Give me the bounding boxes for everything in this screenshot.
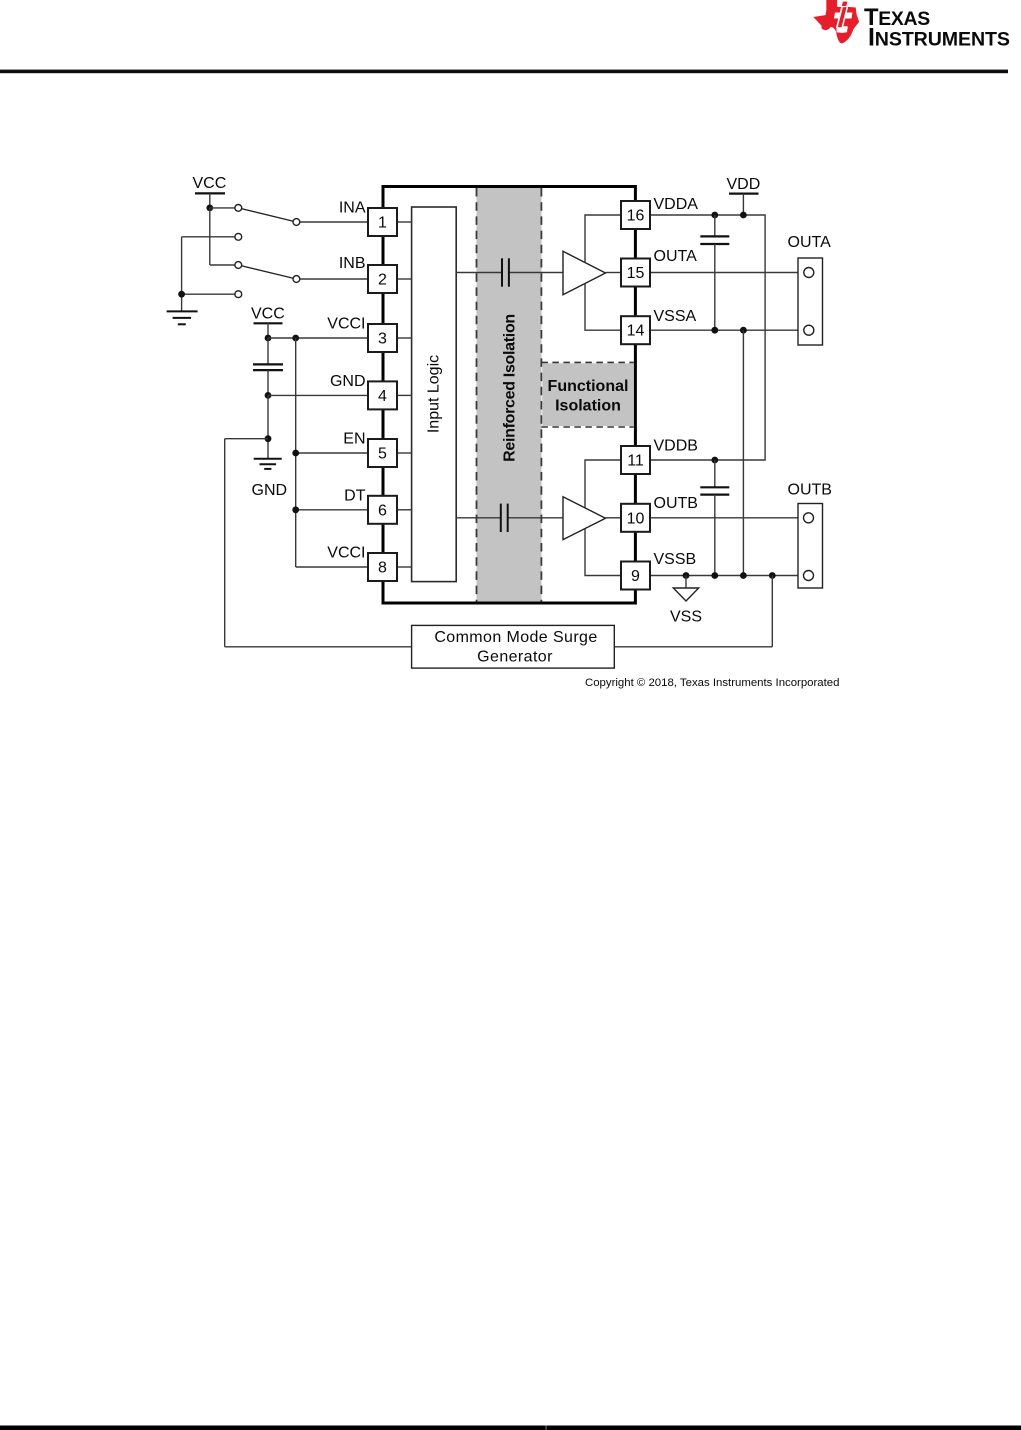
node VDD supply [727,176,761,215]
svg-text:10: 10 [627,510,645,527]
svg-text:INA: INA [339,200,366,217]
switch S1 (INA select) [210,205,368,226]
wire driver B supply rail [585,460,621,576]
wire to surge generator (left) [225,439,412,647]
svg-text:VDDB: VDDB [654,437,698,454]
svg-text:VCCI: VCCI [327,316,365,333]
svg-text:VCC: VCC [251,305,285,322]
capacitor C2 (isolation channel A) [501,258,509,286]
connector J1 OUTA [788,234,832,345]
wire isolation channel B [456,517,563,519]
wire VSSA to VSSB [742,330,744,575]
svg-text:VSS: VSS [670,609,702,626]
connector J2 OUTB [788,481,832,588]
pin 14 (VSSA) [621,308,697,344]
wire OUTB [650,517,809,519]
svg-text:8: 8 [378,560,387,577]
svg-text:DT: DT [344,487,366,504]
pin 16 (VDDA) [621,196,698,229]
wire surge generator return [614,576,772,647]
node VCC (VCCI supply) [251,305,285,341]
pin 11 (VDDB) [621,437,698,474]
svg-text:5: 5 [378,446,387,463]
wire pins to input logic [397,222,411,567]
svg-text:16: 16 [627,208,645,225]
ground VSS [670,576,702,626]
capacitor C4 (VDDA decoupling) [700,215,729,330]
svg-text:Reinforced Isolation: Reinforced Isolation [501,314,518,462]
capacitor C1 (VCCI decoupling) [253,338,283,399]
wire driver A supply rail [585,215,621,330]
svg-text:EN: EN [343,431,365,448]
svg-text:GND: GND [252,482,288,499]
pin 3 (VCCI) [327,316,397,353]
svg-text:OUTA: OUTA [788,234,832,251]
IC U1 body [383,187,635,604]
pin 8 (VCCI) [327,545,397,582]
capacitor C5 (VDDB decoupling) [700,460,729,576]
svg-text:3: 3 [378,331,387,348]
wire VSSA [650,327,809,334]
svg-text:Generator: Generator [477,649,553,666]
wire ground contacts [178,233,242,311]
svg-text:OUTA: OUTA [654,248,698,265]
wire GND net [265,395,368,458]
ground (input select) [167,311,198,324]
wire VDDA to VDDB [650,212,765,464]
svg-text:VDDA: VDDA [654,196,699,213]
node VCC (input select supply) [193,175,227,211]
pin 5 (EN) [343,431,397,468]
pin 15 (OUTA) [621,248,697,287]
svg-text:9: 9 [631,568,640,585]
svg-text:1: 1 [378,215,387,232]
switch S2 (INB select) [210,208,368,283]
wire VCCI [268,335,368,342]
pin 10 (OUTB) [621,495,698,532]
svg-text:VDD: VDD [727,176,761,193]
block common mode surge generator [412,625,615,668]
ground GND [252,459,288,499]
svg-text:15: 15 [627,265,645,282]
svg-text:Functional: Functional [548,378,629,395]
svg-text:4: 4 [378,388,387,405]
svg-text:6: 6 [378,502,387,519]
input logic block [412,207,457,582]
svg-text:INB: INB [339,255,366,272]
buffer U3 (driver B) [563,497,621,540]
capacitor C3 (isolation channel B) [500,504,508,532]
svg-text:GND: GND [330,373,366,390]
svg-text:Copyright © 2018, Texas Instru: Copyright © 2018, Texas Instruments Inco… [585,677,839,689]
header rule [0,70,1008,74]
svg-text:Common Mode Surge: Common Mode Surge [434,629,597,646]
footer bar [0,1426,1021,1430]
svg-text:VSSA: VSSA [654,308,697,325]
wire isolation channel A [456,272,563,274]
svg-text:VCC: VCC [193,175,227,192]
Texas Instruments logo bug [813,0,859,43]
svg-text:OUTB: OUTB [788,481,832,498]
pin 2 (INB) [339,255,397,293]
reinforced isolation barrier [477,188,542,602]
svg-text:VCCI: VCCI [327,545,365,562]
buffer U2 (driver A) [563,251,621,294]
wire OUTA [650,272,809,274]
svg-text:14: 14 [627,323,645,340]
pin 6 (DT) [344,487,397,524]
pin 1 (INA) [339,200,397,237]
svg-text:11: 11 [627,453,644,470]
pin 9 (VSSB) [621,551,696,589]
svg-text:OUTB: OUTB [654,495,698,512]
wire VSSB [650,572,809,579]
svg-text:Input Logic: Input Logic [425,355,442,433]
functional isolation region [541,362,633,427]
pin 4 (GND) [330,373,397,410]
svg-text:2: 2 [378,272,387,289]
svg-text:Isolation: Isolation [555,398,621,415]
svg-text:VSSB: VSSB [654,551,697,568]
svg-text:INSTRUMENTS: INSTRUMENTS [868,25,1010,52]
wire VCCI rail [292,338,368,567]
